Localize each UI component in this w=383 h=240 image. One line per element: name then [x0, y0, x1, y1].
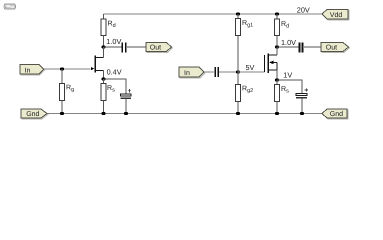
wire Rg top lead [61, 69, 63, 84]
wire In to C2 [204, 71, 214, 73]
power flag Vdd [322, 10, 349, 20]
node Rs-ground (right) [275, 112, 279, 115]
svg-text:In: In [184, 70, 190, 77]
node junction Rg1 top rail [236, 12, 240, 15]
svg-text:Rs: Rs [107, 85, 115, 94]
resistor Rg [60, 84, 75, 101]
resistor Rg1 [236, 14, 254, 36]
transistor Q1 n-JFET [91, 56, 104, 73]
toolbar badge [4, 4, 15, 9]
svg-text:Rg2: Rg2 [242, 86, 253, 95]
port flag Out (left) [146, 43, 172, 53]
resistor Rd (left) [101, 14, 116, 47]
svg-text:Gnd: Gnd [330, 110, 343, 118]
svg-text:Rg1: Rg1 [242, 20, 253, 29]
svg-text:5V: 5V [246, 63, 255, 72]
resistor Rg2 [236, 72, 254, 114]
svg-text:20V: 20V [297, 6, 310, 15]
node junction at Rg top [60, 67, 64, 70]
svg-text:1.0V: 1.0V [106, 37, 121, 46]
resistor Rs (right) [275, 80, 290, 114]
svg-text:In: In [25, 67, 31, 74]
svg-text:Rg: Rg [66, 85, 74, 94]
wire junction to Cs (right) [277, 80, 302, 93]
svg-text:0.4V: 0.4V [107, 68, 122, 77]
wire In to gate (left) [44, 68, 91, 70]
wire source to junction (right) [276, 70, 278, 80]
capacitor C1 coupling (left out) [121, 43, 126, 53]
wire junction to Cs (left) [104, 79, 127, 94]
wire Rg1 to gate node [237, 36, 239, 73]
wire Gnd bottom rail [47, 113, 322, 115]
wire source to junction [103, 70, 105, 79]
capacitor Cs bypass (left, polarized) [121, 89, 131, 99]
svg-text:Rd: Rd [108, 21, 116, 30]
node Rs-ground [101, 112, 105, 115]
node source junction 1V [275, 71, 292, 82]
wire drain node to C1 [104, 46, 122, 48]
wire Cs to ground (right) [301, 98, 303, 113]
node junction Rg-ground [60, 112, 64, 115]
node drain (right) 1.0V [275, 38, 296, 49]
wire Cs to ground (left) [125, 99, 127, 113]
wire C2 to gate node [219, 71, 238, 73]
svg-text:Out: Out [150, 45, 161, 52]
wire drain to Q1 [103, 47, 105, 58]
transistor M1 n-MOSFET [265, 54, 278, 74]
node gate 5V [236, 63, 255, 74]
svg-text:Vdd: Vdd [330, 11, 343, 19]
wire Rg bottom lead [61, 101, 63, 114]
capacitor C2 coupling (right in) [214, 67, 219, 77]
svg-text:Rd: Rd [281, 21, 289, 30]
svg-text:Gnd: Gnd [26, 110, 39, 118]
capacitor Cs bypass (right, polarized) [296, 88, 308, 98]
wire drain node to C3 [277, 46, 299, 48]
resistor Rd (right) [275, 14, 290, 47]
ground flag Gnd (right) [322, 109, 348, 119]
node source junction 0.4V [101, 68, 121, 81]
svg-text:Out: Out [326, 45, 337, 52]
capacitor C3 coupling (right out) [299, 43, 304, 53]
node Cs-ground (right) [300, 112, 304, 115]
label 20V supply [297, 6, 310, 15]
node drain (left) 1.0V [101, 37, 121, 48]
port flag In (right) [179, 67, 205, 78]
wire C3 to Out flag [304, 46, 321, 48]
port flag In (left) [20, 65, 45, 75]
svg-text:1V: 1V [283, 71, 292, 80]
node Cs-ground (left) [124, 112, 128, 115]
port flag Out (right) [321, 43, 349, 53]
svg-text:1.0V: 1.0V [281, 38, 296, 47]
port flag Gnd (left) [21, 109, 48, 119]
wire C1 to Out flag [127, 46, 146, 48]
wire gate lead (right) [238, 71, 265, 73]
svg-text:Rs: Rs [281, 86, 289, 95]
wire drain node to M1 [276, 47, 278, 55]
resistor Rs (left) [101, 79, 115, 114]
node junction Rd top rail (right) [275, 12, 279, 15]
node Rg2-ground [236, 112, 240, 115]
wire Vdd top rail [104, 13, 322, 15]
